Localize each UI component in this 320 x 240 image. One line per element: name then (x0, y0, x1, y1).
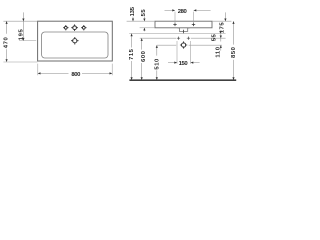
dimension 510 arrows (156, 45, 158, 80)
svg-text:470: 470 (3, 37, 9, 49)
svg-text:135: 135 (130, 6, 136, 16)
svg-text:55: 55 (141, 9, 147, 17)
dimension 55/110 arrows (right) (220, 31, 222, 48)
tap cross right (front view) (192, 23, 195, 26)
basin inner bowl (rounded rect) (42, 32, 108, 58)
rim band rectangle (front view) (155, 21, 212, 28)
dimension 470 line (6, 21, 8, 62)
svg-text:850: 850 (231, 46, 237, 58)
fixing hole cross right (187, 37, 190, 40)
dimension 135 line + 715 line (132, 17, 133, 80)
dimension 55/110 line (right) (220, 31, 222, 51)
dimension 175 line (224, 12, 226, 21)
svg-text:55: 55 (212, 33, 218, 41)
tap hole centre (top view) (71, 24, 78, 31)
dimension 600 arrows (141, 38, 143, 80)
svg-text:110: 110 (215, 46, 221, 57)
dimension 135 arrows (131, 19, 135, 37)
extension line drain level (157, 44, 222, 46)
svg-text:150: 150 (179, 61, 189, 67)
drain boss (front view) (178, 28, 190, 31)
dimension 800 arrows (38, 72, 112, 74)
svg-text:280: 280 (178, 9, 188, 15)
extension verticals for 150 (177, 41, 191, 64)
dimension 470 arrows (6, 21, 8, 62)
dimension 150 line (168, 62, 200, 64)
floor line (129, 79, 236, 81)
extension line top-left (3, 20, 37, 22)
dimension 150 arrows (174, 62, 193, 64)
dimension 55 arrows (143, 19, 145, 31)
svg-text:715: 715 (129, 48, 135, 60)
dimension 850 line (233, 21, 235, 80)
dimension 195 line (22, 12, 24, 40)
extension verticals for 280 (175, 12, 194, 24)
dimension 280 arrows (172, 9, 196, 11)
extension verticals for 800 (38, 64, 112, 76)
fixing hole cross left (177, 37, 180, 40)
washbasin outer rectangle (top view) (38, 21, 113, 61)
dimension 280 line (165, 9, 211, 11)
dimension 195 arrows (22, 19, 24, 41)
dimension 850 arrows (232, 21, 234, 80)
overflow hole (top view) (71, 37, 79, 45)
dimension 175 arrow (224, 19, 226, 22)
dimension 715 bottom arrow (131, 77, 133, 80)
extension line overflow level (19, 40, 36, 42)
extension line rim bottom left (140, 27, 155, 29)
dimension 55 line + 600 line (142, 17, 145, 80)
dimension 510 line (156, 45, 158, 80)
tap hole left (top view) (63, 25, 68, 30)
dimension 800 line (38, 72, 112, 74)
extension line rim top left (127, 20, 155, 22)
svg-text:510: 510 (154, 58, 160, 70)
tap hole right (top view) (81, 25, 86, 30)
extension line ceramic bottom (long) (129, 33, 225, 35)
extension line bottom-left (3, 61, 37, 63)
svg-text:800: 800 (71, 72, 81, 78)
svg-text:195: 195 (19, 29, 25, 41)
drain boss centreline tick (183, 30, 185, 34)
svg-text:600: 600 (141, 50, 147, 62)
extension line fixing holes level (140, 37, 226, 39)
extension line rim top right (212, 20, 231, 22)
tap cross left (front view) (173, 23, 176, 26)
drain outlet circle (front view) (180, 41, 187, 48)
